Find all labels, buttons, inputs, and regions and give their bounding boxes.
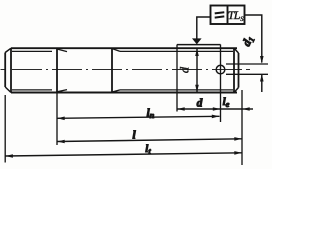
left chamfer bottom diagonal: [5, 87, 11, 93]
dimension l line: [57, 139, 242, 142]
left chamfer vertical: [10, 48, 12, 92]
right chamfer bottom diagonal: [234, 88, 239, 93]
d dim arrow up: [195, 49, 199, 57]
split pin hole: [216, 65, 225, 74]
symmetry symbol bar 1: [215, 12, 225, 13]
dimension le line: [221, 108, 243, 110]
svg-text:d: d: [178, 66, 192, 73]
thread runout bottom right of x112: [113, 90, 121, 92]
left end face: [4, 53, 6, 88]
thread root line bottom left section: [12, 89, 52, 91]
extension line x=220: [220, 45, 222, 123]
lh right arrow: [212, 115, 220, 119]
svg-text:d1: d1: [241, 34, 257, 49]
right chamfer top diagonal: [234, 48, 239, 53]
svg-text:lt: lt: [145, 143, 151, 156]
bracket line on top of thread: [177, 44, 221, 46]
svg-text:d: d: [197, 98, 203, 110]
leader from frame to datum: [197, 17, 211, 39]
thread boundary line x=112: [111, 48, 113, 92]
d dim arrow down: [195, 85, 199, 93]
datum triangle: [192, 38, 202, 44]
d bottom left arrow: [177, 107, 185, 111]
leader from frame to d1 dimension: [245, 15, 262, 56]
thread runout top right of x112: [113, 49, 121, 52]
d bottom right arrow: [213, 107, 221, 111]
svg-text:ln: ln: [147, 107, 155, 120]
tolerance frame box: [211, 6, 245, 25]
d1 lower arrow: [261, 74, 263, 92]
right end face: [238, 53, 240, 88]
extension line x=177: [176, 45, 178, 112]
le outside arrow right: [242, 108, 253, 110]
thread root line top left section: [12, 50, 52, 52]
thread runout top right of x57: [57, 49, 67, 52]
lt left arrow: [5, 154, 12, 158]
left chamfer top diagonal: [5, 48, 11, 52]
dimension lh line: [57, 116, 220, 118]
stud top edge: [11, 47, 237, 49]
centerline: [1, 69, 251, 71]
lt right arrow: [234, 151, 242, 155]
thread boundary line x=57: [56, 48, 58, 92]
dimension lt line: [5, 153, 242, 156]
lh left arrow: [57, 117, 64, 121]
right chamfer vertical: [233, 48, 235, 92]
svg-text:l: l: [132, 128, 136, 142]
thread root line bottom right section: [120, 89, 233, 91]
tolerance frame divider: [227, 6, 229, 25]
d1 upper arrow: [261, 56, 263, 63]
extension line x=242: [241, 90, 243, 165]
extension line x=5: [4, 95, 6, 163]
l left arrow: [57, 140, 64, 144]
dimension d bottom line: [177, 108, 221, 110]
stud bottom edge: [11, 92, 237, 94]
l right arrow: [234, 137, 242, 141]
svg-text:s: s: [240, 13, 244, 23]
hole extension line top: [226, 63, 268, 65]
svg-text:le: le: [223, 96, 230, 109]
d vertical dimension line: [196, 48, 198, 92]
extension line x=57 below stud: [56, 93, 58, 146]
symmetry symbol bar 2: [215, 16, 225, 17]
thread root line top right section: [120, 50, 233, 52]
hole extension line bottom: [226, 73, 268, 75]
thread runout bottom right of x57: [57, 90, 67, 92]
